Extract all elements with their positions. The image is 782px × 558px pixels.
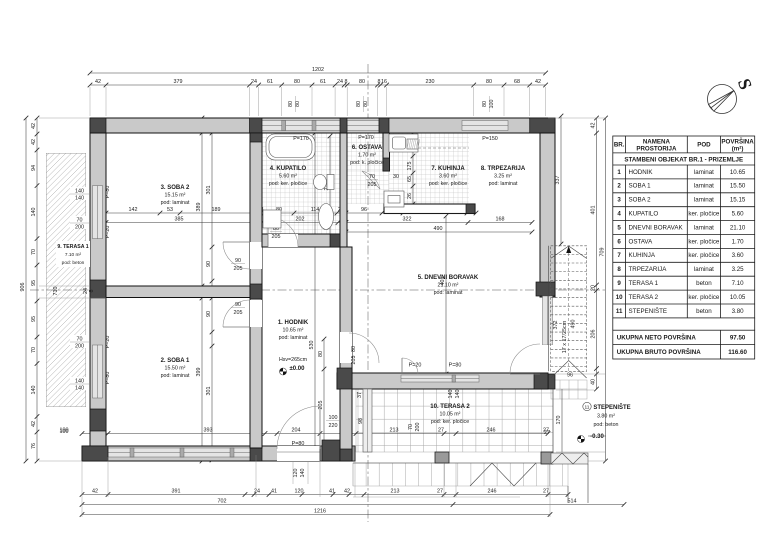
left exterior wall (90, 133, 106, 448)
svg-text:90: 90 (206, 311, 212, 317)
svg-text:213: 213 (390, 428, 399, 434)
svg-text:702: 702 (218, 499, 227, 505)
svg-text:STEPENIŠTE: STEPENIŠTE (629, 308, 668, 315)
kupatilo south wall block (330, 234, 340, 247)
washing machine (263, 210, 281, 228)
svg-text:laminat: laminat (694, 266, 714, 273)
svg-text:P=150: P=150 (482, 136, 498, 142)
section line vertical (367, 64, 369, 522)
door arc dnevni west (349, 333, 379, 363)
svg-text:301: 301 (206, 186, 212, 195)
svg-text:337: 337 (555, 176, 561, 185)
svg-text:1.70: 1.70 (732, 238, 745, 245)
terasa 1 hatched area (0, 153, 598, 407)
dnevni west door gap (340, 332, 352, 363)
svg-text:9. TERASA 1: 9. TERASA 1 (57, 244, 88, 250)
left wall window spec labels (70, 187, 89, 200)
right wall top block (540, 133, 555, 143)
kitchen oven (384, 191, 404, 207)
top exterior wall (90, 118, 555, 133)
svg-text:laminat: laminat (694, 183, 714, 190)
interior vertical dim hodnik 80 205 (323, 339, 325, 449)
svg-text:246: 246 (487, 428, 496, 434)
svg-text:±0.00: ±0.00 (290, 366, 306, 372)
top overall dimension 1202 (90, 72, 546, 74)
svg-text:96: 96 (567, 373, 573, 379)
kitchen upper cabinet dashed (418, 147, 469, 149)
svg-text:17 x 17/25cm: 17 x 17/25cm (562, 320, 568, 353)
svg-text:pod: laminat: pod: laminat (279, 335, 308, 341)
svg-text:213: 213 (391, 489, 400, 495)
door arc soba 2 (223, 242, 250, 269)
right wall block mid (536, 282, 555, 296)
dnevni west wall block south (337, 368, 352, 389)
svg-text:7. KUHINJA: 7. KUHINJA (431, 166, 465, 172)
svg-text:42: 42 (92, 489, 98, 495)
svg-text:301: 301 (206, 387, 212, 396)
svg-text:pod: ker. pločice: pod: ker. pločice (269, 181, 307, 187)
svg-text:8: 8 (345, 79, 348, 85)
svg-text:SOBA 1: SOBA 1 (629, 183, 652, 190)
svg-text:STAMBENI OBJEKAT BR.1 - PRIZEM: STAMBENI OBJEKAT BR.1 - PRIZEMLJE (624, 157, 743, 164)
svg-text:168: 168 (496, 217, 505, 223)
right dimension chain 42 401 20 206 40 (596, 118, 598, 389)
svg-text:10.65: 10.65 (730, 169, 746, 176)
svg-text:61: 61 (320, 79, 326, 85)
top wall corner block left (90, 118, 106, 133)
kitchen stove hatch (407, 139, 418, 149)
top wall window trpezarija (462, 121, 508, 131)
kitchen south wall (384, 204, 475, 214)
svg-text:9: 9 (617, 280, 621, 287)
left wall block bottom (90, 409, 106, 431)
left extension lines (39, 117, 90, 119)
svg-text:pod: laminat: pod: laminat (434, 290, 463, 296)
left wall block mid (90, 280, 106, 298)
central interior wall (250, 133, 262, 448)
svg-text:30: 30 (393, 174, 399, 180)
svg-text:24: 24 (251, 79, 257, 85)
svg-text:ker. pločice: ker. pločice (688, 252, 720, 259)
svg-text:3. SOBA 2: 3. SOBA 2 (161, 185, 190, 191)
svg-text:906: 906 (20, 283, 26, 292)
bathtub (266, 134, 315, 160)
svg-text:27: 27 (544, 430, 550, 436)
svg-text:142: 142 (129, 207, 138, 213)
svg-text:175: 175 (407, 162, 413, 171)
svg-text:42: 42 (31, 421, 37, 427)
top wall pier block 1 (250, 118, 263, 133)
svg-text:200: 200 (75, 225, 84, 231)
svg-text:70: 70 (408, 424, 414, 430)
svg-text:(m²): (m²) (732, 146, 744, 153)
kupatilo east wall (340, 133, 347, 247)
svg-text:7: 7 (617, 252, 621, 259)
svg-text:beton: beton (696, 308, 712, 315)
svg-text:P=20: P=20 (409, 363, 422, 369)
svg-text:710: 710 (53, 287, 59, 296)
interior dimension 490 (346, 231, 532, 233)
svg-text:laminat: laminat (694, 224, 714, 231)
svg-text:205: 205 (368, 182, 377, 188)
svg-text:202: 202 (296, 217, 305, 223)
svg-text:1202: 1202 (312, 67, 324, 73)
svg-text:27: 27 (438, 428, 444, 434)
ramp hatch triangles on step strip (470, 463, 536, 486)
bottom dimension chain 2 (82, 494, 568, 496)
svg-text:4. KUPATILO: 4. KUPATILO (270, 166, 307, 172)
lower terrace step strip (353, 463, 568, 497)
svg-text:8. TRPEZARIJA: 8. TRPEZARIJA (481, 166, 526, 172)
svg-text:laminat: laminat (694, 169, 714, 176)
svg-text:41: 41 (271, 489, 277, 495)
section line horizontal (30, 289, 607, 291)
central wall top block (250, 133, 262, 142)
svg-text:pod: beton: pod: beton (62, 260, 85, 266)
terasa 2 right edge (552, 389, 554, 452)
svg-text:170: 170 (556, 416, 562, 425)
interior vertical dim kupatilo 278 (329, 136, 331, 240)
svg-text:372: 372 (553, 321, 559, 330)
svg-text:80: 80 (356, 101, 362, 107)
right wall window (543, 296, 553, 345)
kupatilo door gap (268, 234, 298, 247)
interior vertical dim line left rooms B (211, 133, 213, 460)
top segment dimension chain (90, 84, 546, 86)
svg-text:3.60: 3.60 (732, 252, 745, 259)
svg-text:OSTAVA: OSTAVA (629, 238, 654, 245)
terasa low wall west (363, 389, 372, 452)
svg-text:P=170: P=170 (358, 135, 374, 141)
table ukupna neto (613, 330, 755, 359)
bottom inner dimension chain (82, 433, 548, 435)
washbasin (319, 204, 334, 230)
svg-text:140: 140 (31, 208, 37, 217)
svg-text:15.15 m²: 15.15 m² (165, 193, 186, 199)
svg-text:189: 189 (212, 207, 221, 213)
svg-text:391: 391 (172, 489, 181, 495)
svg-text:6. OSTAVA: 6. OSTAVA (352, 145, 383, 151)
room label stepeniste (583, 402, 591, 410)
svg-text:140: 140 (75, 386, 84, 392)
svg-text:27: 27 (437, 489, 443, 495)
svg-text:pod: laminat: pod: laminat (161, 200, 190, 206)
staircase top chevron break (551, 246, 587, 258)
svg-text:61: 61 (267, 79, 273, 85)
svg-text:80: 80 (318, 351, 324, 357)
svg-text:5.60: 5.60 (732, 211, 745, 218)
svg-text:1. HODNIK: 1. HODNIK (278, 320, 309, 326)
ostava east wall block (383, 158, 390, 171)
south wall window band (401, 375, 479, 382)
svg-text:95: 95 (31, 316, 37, 322)
south wall corner block east (534, 373, 548, 389)
svg-text:1216: 1216 (314, 509, 326, 515)
svg-text:200: 200 (75, 344, 84, 350)
north arrow compass (708, 85, 737, 114)
svg-text:140: 140 (75, 379, 84, 385)
svg-text:5. DNEVNI BORAVAK: 5. DNEVNI BORAVAK (418, 275, 479, 281)
svg-text:3.80 m²: 3.80 m² (597, 414, 615, 420)
svg-text:41: 41 (329, 489, 335, 495)
svg-text:3: 3 (617, 197, 621, 204)
svg-text:200: 200 (415, 423, 421, 432)
right side extension lines (548, 117, 606, 119)
svg-text:11: 11 (585, 405, 590, 411)
svg-text:6: 6 (617, 238, 621, 245)
svg-text:5.60 m²: 5.60 m² (279, 174, 297, 180)
svg-text:15.50 m²: 15.50 m² (165, 366, 186, 372)
svg-text:140: 140 (31, 386, 37, 395)
room label terasa 1 (56, 241, 90, 267)
svg-text:393: 393 (204, 428, 213, 434)
svg-text:206: 206 (591, 330, 597, 339)
svg-text:10.65 m²: 10.65 m² (283, 328, 304, 334)
bottom exterior wall (82, 446, 355, 461)
left wall window soba1 (93, 345, 103, 398)
svg-text:TERASA 1: TERASA 1 (629, 280, 659, 287)
svg-text:385: 385 (175, 217, 184, 223)
svg-text:490: 490 (434, 226, 443, 232)
staircase 11 (551, 246, 587, 371)
top wall window kupatilo (259, 121, 340, 131)
top wall pier block 3 (379, 118, 389, 133)
svg-text:pod: laminat: pod: laminat (161, 373, 190, 379)
bottom wall window (108, 448, 256, 457)
svg-text:NAMENA: NAMENA (643, 139, 671, 146)
svg-text:24: 24 (337, 79, 343, 85)
level marker hodnik (280, 368, 287, 375)
svg-text:322: 322 (403, 217, 412, 223)
kitchen counter with sink (389, 134, 418, 152)
svg-text:42: 42 (535, 79, 541, 85)
svg-text:10. TERASA 2: 10. TERASA 2 (430, 404, 470, 410)
svg-text:514: 514 (568, 499, 577, 505)
right overall dimension 709 (605, 118, 607, 461)
svg-text:SOBA 2: SOBA 2 (629, 197, 652, 204)
svg-text:205: 205 (318, 401, 324, 410)
svg-text:beton: beton (696, 280, 712, 287)
svg-text:709: 709 (600, 248, 606, 257)
terasa 2 pillar right (541, 452, 553, 464)
hodnik east wall bottom block (340, 449, 352, 461)
svg-text:530: 530 (309, 341, 315, 350)
top wall window ostava (347, 121, 379, 131)
svg-text:21.10: 21.10 (730, 224, 746, 231)
kupatilo floor tiles (262, 133, 340, 240)
svg-text:2: 2 (617, 183, 621, 190)
svg-text:100: 100 (489, 100, 495, 109)
svg-text:80: 80 (486, 79, 492, 85)
svg-text:15.15: 15.15 (730, 197, 746, 204)
svg-text:P=170: P=170 (293, 136, 309, 142)
svg-text:ker. pločice: ker. pločice (688, 294, 720, 301)
svg-text:pod: beton: pod: beton (593, 422, 618, 428)
svg-text:POD: POD (697, 142, 711, 149)
left overall dimension 906 (25, 118, 27, 461)
svg-text:42: 42 (591, 123, 597, 129)
table of rooms (613, 136, 755, 318)
svg-text:140: 140 (455, 390, 461, 399)
svg-text:11: 11 (616, 308, 623, 315)
svg-text:205: 205 (351, 356, 357, 365)
svg-text:90: 90 (235, 302, 241, 308)
svg-text:140: 140 (300, 469, 306, 478)
svg-text:120: 120 (295, 489, 304, 495)
svg-text:70: 70 (77, 218, 83, 224)
door arc terrace (402, 358, 418, 374)
svg-text:pod: ker. pločice: pod: ker. pločice (431, 419, 469, 425)
door arc kupatilo (268, 217, 298, 247)
bottom wall corner block left (82, 446, 108, 461)
svg-text:3.25: 3.25 (732, 266, 745, 273)
svg-text:230: 230 (426, 79, 435, 85)
svg-text:80: 80 (294, 79, 300, 85)
svg-text:246: 246 (488, 489, 497, 495)
bottom overall dimension 1216 (82, 514, 550, 516)
staircase bottom chevron break (551, 361, 587, 379)
svg-text:TRPEZARIJA: TRPEZARIJA (629, 266, 668, 273)
kuhinja floor tiles (347, 133, 469, 204)
svg-text:KUHINJA: KUHINJA (629, 252, 656, 259)
door arc east to stairs (510, 344, 540, 374)
svg-text:490: 490 (571, 320, 577, 329)
svg-text:401: 401 (591, 206, 597, 215)
bottom dimension 702 / 514 (82, 504, 624, 506)
svg-text:21.10 m²: 21.10 m² (438, 283, 459, 289)
right dimension line 337 (560, 116, 562, 244)
bottom wall block at entrance (320, 446, 355, 461)
bottom extension lines (81, 461, 83, 517)
svg-text:42: 42 (344, 489, 350, 495)
staircase stringer lines (548, 246, 550, 371)
svg-text:Hsv=265cm: Hsv=265cm (279, 357, 308, 363)
svg-text:70: 70 (77, 337, 83, 343)
svg-text:UKUPNA BRUTO POVRŠINA: UKUPNA BRUTO POVRŠINA (617, 348, 701, 356)
terasa 2 floor tile grid (356, 389, 553, 452)
svg-text:24: 24 (254, 489, 260, 495)
svg-text:15.50: 15.50 (730, 183, 746, 190)
door ostava leaf (362, 171, 380, 189)
svg-text:97.50: 97.50 (730, 335, 746, 342)
top wall pier block 2 (340, 118, 347, 133)
svg-text:100: 100 (60, 429, 69, 435)
svg-text:379: 379 (174, 79, 183, 85)
central wall bottom block (250, 448, 262, 461)
interior vertical dim kitchen (412, 133, 414, 204)
ostava floor tiles (347, 133, 383, 171)
svg-text:120: 120 (293, 469, 299, 478)
svg-text:UKUPNA NETO POVRŠINA: UKUPNA NETO POVRŠINA (617, 334, 697, 342)
terasa 2 bottom edge (353, 462, 568, 464)
staircase walk line (568, 250, 570, 371)
svg-text:90: 90 (235, 258, 241, 264)
hodnik east wall / dnevni west wall (340, 247, 352, 461)
svg-text:205: 205 (234, 266, 243, 272)
left segment dimension chain (36, 118, 38, 461)
svg-text:1.70 m²: 1.70 m² (358, 153, 376, 159)
svg-text:3.60 m²: 3.60 m² (439, 174, 457, 180)
stair landing tiles bottom right (551, 380, 587, 399)
svg-text:116.60: 116.60 (728, 349, 747, 356)
svg-text:5: 5 (617, 224, 621, 231)
svg-text:37: 37 (357, 392, 363, 398)
svg-text:ker. pločice: ker. pločice (688, 238, 720, 245)
svg-text:HODNIK: HODNIK (629, 169, 654, 176)
entrance door opening (277, 446, 320, 461)
central wall junction block (250, 284, 262, 299)
svg-text:2. SOBA 1: 2. SOBA 1 (161, 358, 190, 364)
svg-text:40: 40 (591, 379, 597, 385)
central wall door gap soba2 (250, 242, 262, 269)
svg-text:90: 90 (206, 261, 212, 267)
interior vertical dim hodnik 530 (314, 133, 316, 449)
svg-text:POVRŠINA: POVRŠINA (721, 138, 754, 146)
svg-text:3.80: 3.80 (732, 308, 745, 315)
svg-text:53: 53 (167, 207, 173, 213)
svg-text:220: 220 (329, 423, 338, 429)
svg-text:7.10: 7.10 (732, 280, 745, 287)
svg-text:205: 205 (272, 234, 281, 240)
svg-text:80: 80 (359, 79, 365, 85)
svg-text:70: 70 (369, 174, 375, 180)
svg-text:204: 204 (292, 428, 301, 434)
svg-text:STEPENIŠTE: STEPENIŠTE (593, 403, 630, 411)
svg-text:399: 399 (196, 368, 202, 377)
svg-text:PROSTORIJA: PROSTORIJA (636, 146, 677, 153)
svg-text:16: 16 (381, 79, 387, 85)
interior horizontal dimension chain (106, 212, 476, 214)
kupatilo south wall (262, 234, 340, 247)
svg-text:10.05 m²: 10.05 m² (440, 412, 461, 418)
interior vertical dim line left rooms A (201, 118, 203, 461)
door arc soba 1 (223, 300, 250, 327)
svg-text:10: 10 (616, 294, 623, 301)
svg-text:26: 26 (407, 193, 413, 199)
svg-text:7.10 m²: 7.10 m² (65, 252, 82, 258)
svg-text:94: 94 (31, 165, 37, 171)
svg-text:-0.30: -0.30 (590, 434, 604, 440)
svg-text:140: 140 (448, 390, 454, 399)
svg-text:140: 140 (75, 196, 84, 202)
terasa 2 pillar left (435, 452, 449, 463)
svg-text:P=80: P=80 (449, 363, 462, 369)
table gap vertical borders (612, 318, 614, 330)
svg-text:100: 100 (329, 415, 338, 421)
right wall door gap to stairs (540, 345, 555, 374)
svg-text:80: 80 (363, 101, 369, 107)
svg-text:76: 76 (31, 443, 37, 449)
svg-text:pod: laminat: pod: laminat (489, 181, 518, 187)
svg-text:pod: ker. pločice: pod: ker. pločice (429, 181, 467, 187)
south wall dnevni boravak (337, 373, 548, 389)
wc toilet (327, 175, 334, 190)
svg-text:42: 42 (31, 139, 37, 145)
svg-text:389: 389 (196, 203, 202, 212)
svg-text:8: 8 (89, 290, 95, 293)
interior dimension line 385 202 322 168 (106, 222, 532, 224)
svg-text:DNEVNI BORAVAK: DNEVNI BORAVAK (629, 224, 684, 231)
kitchen south wall block (466, 204, 475, 214)
svg-text:80: 80 (295, 101, 301, 107)
svg-text:95: 95 (31, 280, 37, 286)
top wall corner block right (530, 118, 555, 133)
south wall block west (337, 373, 349, 389)
svg-text:68: 68 (514, 79, 520, 85)
svg-text:laminat: laminat (694, 197, 714, 204)
right exterior wall (540, 133, 555, 297)
svg-text:10.05: 10.05 (730, 294, 746, 301)
